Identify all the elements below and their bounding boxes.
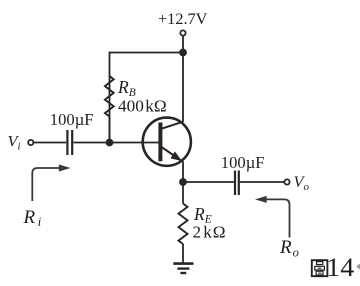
caption trailing gray mark bbox=[356, 262, 360, 271]
wire: capacitor to base bbox=[73, 142, 158, 144]
wire: R_E lower lead to ground bbox=[182, 244, 184, 264]
wire: R_B lower lead bbox=[109, 117, 111, 143]
svg-text:14: 14 bbox=[326, 252, 354, 282]
node junction top rail bbox=[179, 49, 187, 57]
transistor Q1 base bar bbox=[158, 123, 162, 162]
svg-text:Ri: Ri bbox=[23, 207, 42, 229]
svg-text:Vo: Vo bbox=[294, 172, 310, 193]
svg-text:Vi: Vi bbox=[8, 132, 21, 153]
svg-text:Ro: Ro bbox=[279, 237, 299, 259]
transistor Q1 circle bbox=[143, 118, 191, 166]
resistor R2 R_E 2k zigzag bbox=[179, 204, 188, 245]
svg-text:2kΩ: 2kΩ bbox=[193, 222, 226, 241]
wire: VCC terminal to top rail bbox=[182, 36, 184, 52]
svg-text:100µF: 100µF bbox=[221, 153, 265, 172]
wire: input to capacitor bbox=[34, 142, 66, 144]
capacitor C1 input 100uF plates bbox=[67, 130, 72, 155]
terminal Vo open circle bbox=[284, 179, 289, 184]
capacitor C2 output 100uF plates bbox=[235, 171, 239, 196]
wire: emitter vertical bbox=[182, 161, 184, 203]
arrow Ri bbox=[32, 168, 60, 201]
svg-text:+12.7V: +12.7V bbox=[158, 9, 208, 28]
arrow Ro bbox=[266, 199, 290, 237]
ground bbox=[173, 264, 193, 273]
wire: collector vertical bbox=[182, 53, 184, 123]
transistor Q1 emitter stroke with arrow bbox=[162, 147, 182, 161]
terminal VCC open circle bbox=[180, 30, 185, 35]
wire: output capacitor to terminal bbox=[240, 181, 284, 183]
caption glyph 圖 drawn manually bbox=[312, 260, 328, 276]
node junction base/RB bbox=[106, 139, 114, 147]
svg-text:100µF: 100µF bbox=[50, 110, 94, 129]
resistor R1 R_B 400k zigzag bbox=[105, 76, 114, 117]
terminal Vi open circle bbox=[28, 140, 33, 145]
transistor Q1 collector stroke bbox=[162, 122, 184, 129]
wire: emitter to output capacitor bbox=[183, 181, 234, 183]
svg-text:400kΩ: 400kΩ bbox=[118, 96, 167, 115]
wire: top horizontal rail bbox=[110, 53, 184, 143]
node junction emitter/output bbox=[179, 178, 187, 186]
